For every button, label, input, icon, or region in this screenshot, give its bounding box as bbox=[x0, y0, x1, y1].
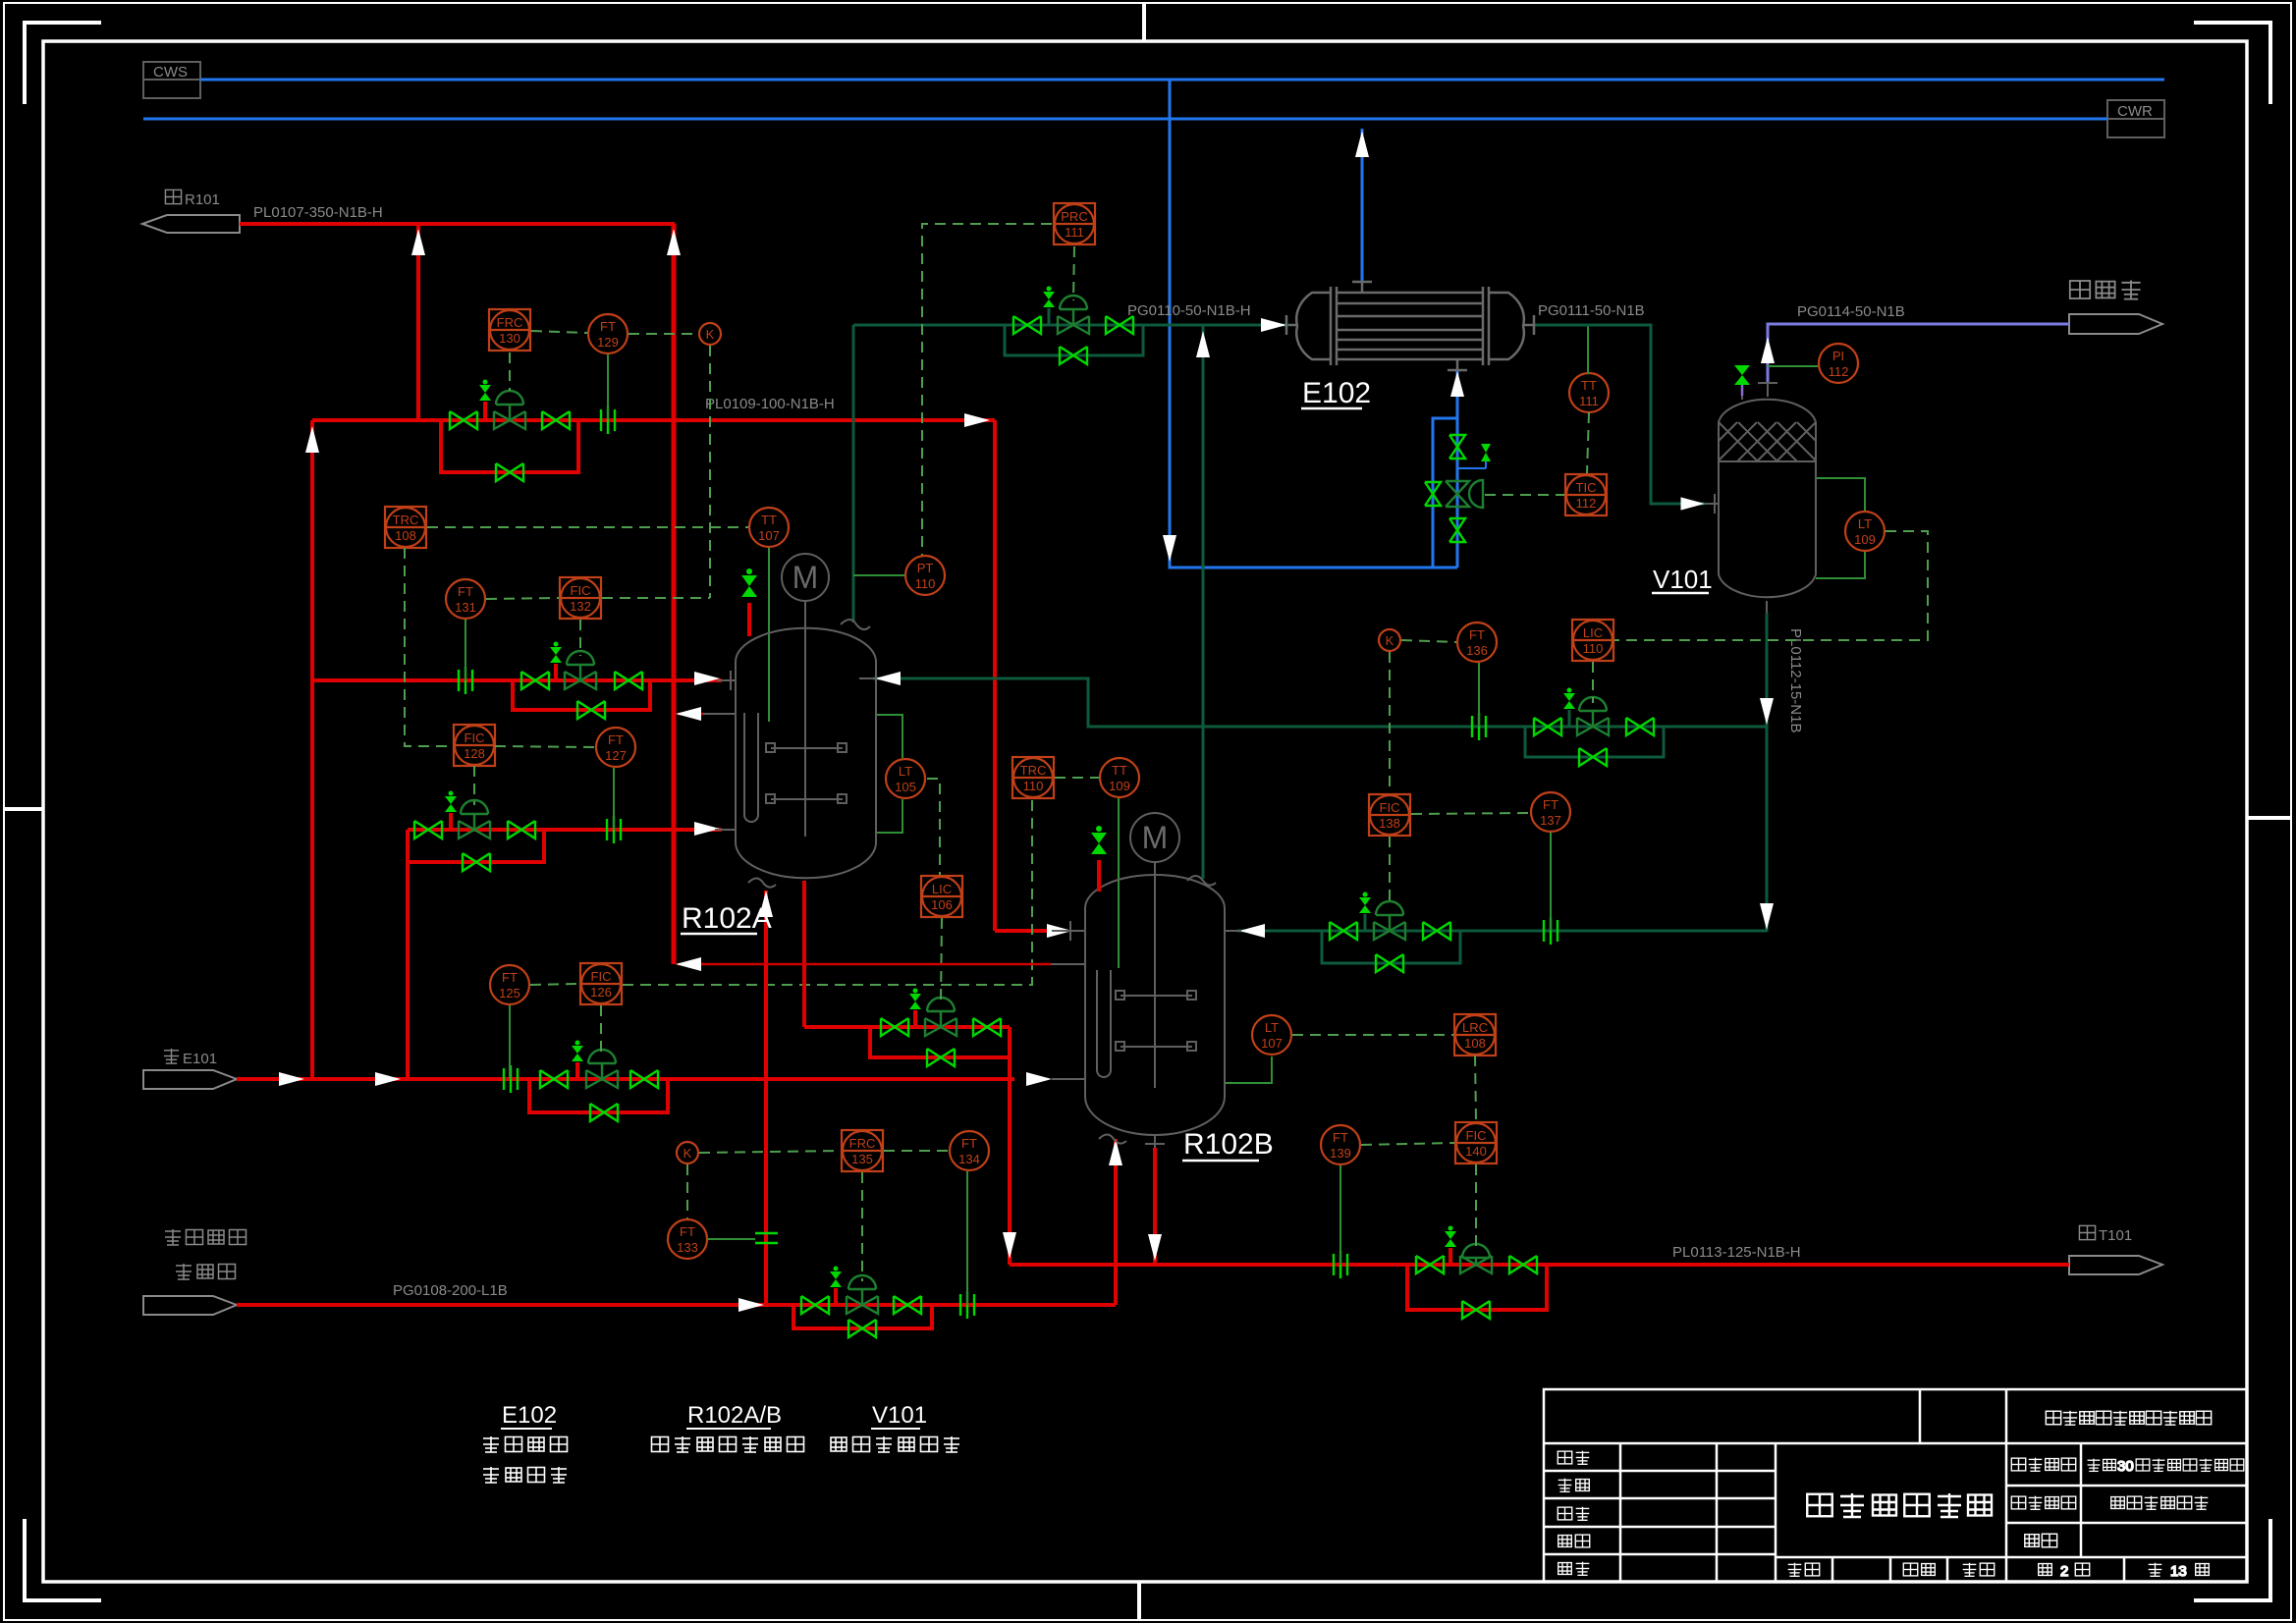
arrow into V101 inlet bbox=[1681, 498, 1703, 510]
svg-text:109: 109 bbox=[1854, 532, 1876, 547]
gray stub into R102B lower nozzle bbox=[1052, 1078, 1085, 1080]
bottom squiggle bbox=[1099, 1135, 1126, 1144]
gate valve left FIC126 bbox=[540, 1070, 568, 1088]
arrow left on vent line bbox=[676, 707, 701, 721]
PT110 tap to gas riser bbox=[853, 574, 904, 576]
FIC132 bypass bbox=[513, 680, 650, 710]
arrow right into R102A lower nozzle bbox=[694, 822, 720, 836]
centre tick right border bbox=[2247, 816, 2291, 820]
orifice on FIC128 line bbox=[607, 816, 621, 843]
LT 107 bbox=[1252, 1015, 1291, 1055]
svg-text:107: 107 bbox=[758, 528, 780, 543]
PI 112 bbox=[1819, 344, 1858, 383]
centre tick top border bbox=[1142, 3, 1146, 41]
svg-text:LT: LT bbox=[1858, 516, 1872, 531]
control valve LIC106 line bbox=[925, 998, 957, 1036]
svg-text:FIC: FIC bbox=[1466, 1128, 1487, 1143]
dash LT107-LRC108 bbox=[1292, 1034, 1453, 1036]
FT 137 bbox=[1531, 792, 1570, 832]
PT 110 bbox=[905, 556, 945, 595]
dash FIC140 to valve bbox=[1475, 1164, 1477, 1250]
FT 139 bbox=[1321, 1125, 1360, 1164]
svg-text:112: 112 bbox=[1576, 496, 1597, 511]
dash FT129-K bbox=[629, 333, 698, 335]
cell text 羰基合成第一反应工序 bbox=[2046, 1411, 2211, 1425]
FRC130 station: bypass bbox=[441, 420, 578, 472]
R102A/B descr 羰基合成反应器 bbox=[652, 1436, 804, 1452]
centre tick bottom border bbox=[1137, 1582, 1141, 1620]
value 年产30万吨丁辛醇项目 bbox=[2088, 1458, 2244, 1475]
arrow right on feed bbox=[279, 1072, 304, 1086]
svg-text:E102: E102 bbox=[1302, 377, 1371, 409]
svg-text:K: K bbox=[683, 1146, 692, 1161]
CWS header line bbox=[200, 79, 2164, 81]
V101 descr 气液相分离器 bbox=[831, 1436, 959, 1452]
motor M of R102B bbox=[1130, 813, 1179, 862]
impeller bar upper bbox=[771, 747, 843, 749]
drain stub + cap FIC140 bbox=[1449, 1248, 1452, 1265]
gate valve left FIC140 bbox=[1416, 1256, 1444, 1273]
K relay right bbox=[1379, 629, 1400, 651]
svg-text:R102B: R102B bbox=[1183, 1128, 1274, 1161]
TIC 112 controller bbox=[1565, 474, 1607, 515]
FIC140 station bypass bbox=[1407, 1265, 1547, 1310]
PL0109 downcomer x1013 bbox=[993, 420, 997, 931]
bottom row 工艺 bbox=[1963, 1563, 1995, 1577]
dash FRC130 to valve bbox=[509, 352, 511, 391]
svg-text:140: 140 bbox=[1465, 1144, 1487, 1159]
FT133 tap bbox=[708, 1238, 755, 1240]
FT127 tap bbox=[613, 768, 615, 830]
svg-text:125: 125 bbox=[499, 986, 520, 1001]
svg-text:FIC: FIC bbox=[591, 969, 612, 984]
dash FIC126 from TRC110 cascade bbox=[623, 799, 1032, 985]
svg-text:110: 110 bbox=[1583, 641, 1604, 656]
gate valve left FIC128 bbox=[414, 821, 442, 839]
V101 demister mesh bbox=[1719, 422, 1816, 461]
svg-text:K: K bbox=[1386, 633, 1394, 648]
downcomer x1028 to product header bbox=[1008, 1027, 1011, 1265]
CW riser to E102 bottom nozzle bbox=[1456, 369, 1459, 568]
orifice on PG0108 bbox=[960, 1291, 974, 1319]
title block row label 设计 bbox=[1558, 1451, 1589, 1465]
gray stub R102B upper nozzle bbox=[1052, 930, 1085, 932]
PRC 111 bbox=[1054, 203, 1095, 244]
svg-text:CWR: CWR bbox=[2117, 103, 2153, 120]
dash LIC106 to valve bbox=[941, 918, 942, 1003]
FT131 tap bbox=[465, 620, 466, 680]
svg-text:E102: E102 bbox=[502, 1402, 557, 1429]
arrow left into R102A side nozzle bbox=[875, 672, 901, 685]
FIC128 bypass bbox=[408, 830, 544, 862]
svg-text:K: K bbox=[706, 327, 715, 342]
bypass valve FIC140 bbox=[1462, 1301, 1490, 1319]
LT105 standpipe bbox=[877, 715, 902, 758]
impeller bar lower bbox=[771, 798, 843, 800]
gray stub vent nozzle bbox=[703, 713, 736, 715]
inline valve above TIC112 valve bbox=[1449, 435, 1465, 459]
R102A syngas riser x780 bbox=[764, 891, 768, 1305]
去T101 connector bbox=[2069, 1256, 2162, 1274]
svg-text:FT: FT bbox=[961, 1136, 977, 1151]
internal coil U-tube bbox=[1097, 970, 1111, 1077]
corner trim mark bottom-left bbox=[25, 1519, 101, 1600]
dash TRC108 down and to FIC128 bbox=[405, 548, 453, 746]
orifice on feed line bbox=[504, 1065, 518, 1093]
dash FIC138 to valve bbox=[1389, 837, 1391, 907]
LIC110 return line y740 to R102A bbox=[873, 678, 1767, 727]
drain stub + cap PRC111 bbox=[1048, 308, 1051, 325]
gray stub R102A right nozzle bbox=[859, 677, 876, 679]
svg-text:R102A/B: R102A/B bbox=[687, 1402, 782, 1429]
R102A relief stub + valve bbox=[747, 603, 751, 636]
svg-text:FRC: FRC bbox=[849, 1136, 876, 1151]
LT109 standpipe bbox=[1816, 478, 1865, 511]
FT 127 bbox=[596, 728, 635, 767]
solenoid on CW riser bbox=[1481, 444, 1491, 461]
svg-text:FIC: FIC bbox=[571, 583, 591, 598]
R102B upper feed spur bbox=[995, 929, 1052, 933]
svg-text:137: 137 bbox=[1540, 813, 1561, 828]
cell label 图号 bbox=[2025, 1534, 2057, 1547]
value 初步设计阶段 bbox=[2111, 1496, 2209, 1510]
bypass valve LIC110 bbox=[1579, 748, 1607, 766]
gate valve left FRC130 bbox=[450, 411, 477, 429]
arrow down on downcomer bbox=[1003, 1232, 1016, 1259]
PG0114 offgas to boiler bbox=[1768, 324, 2069, 382]
control valve LIC110 bbox=[1577, 697, 1609, 735]
arrow right into R102B lower nozzle bbox=[1026, 1072, 1052, 1086]
corner trim mark top-right bbox=[2194, 23, 2270, 104]
TRC 110 bbox=[1012, 757, 1054, 798]
svg-text:13: 13 bbox=[2170, 1563, 2187, 1580]
svg-text:128: 128 bbox=[464, 746, 485, 761]
svg-text:TIC: TIC bbox=[1576, 480, 1597, 495]
control valve FIC132 bbox=[565, 651, 596, 689]
dash TIC112 valve to controller bbox=[1485, 494, 1564, 496]
V101 return line y948 to R102B bbox=[1237, 930, 1767, 933]
svg-text:130: 130 bbox=[499, 331, 520, 346]
PG0108 syngas feed header bbox=[237, 1303, 1116, 1307]
FIC138 station bypass bbox=[1322, 931, 1460, 963]
FIC 126 bbox=[580, 963, 622, 1004]
R102B syngas riser x1136 bbox=[1114, 1139, 1118, 1305]
drain stub + cap LIC106 line bbox=[913, 1010, 917, 1027]
dash K down to FT133 bbox=[686, 1164, 688, 1218]
bottom squiggle bbox=[748, 879, 776, 888]
control valve FIC128 bbox=[459, 800, 490, 839]
svg-text:FT: FT bbox=[1333, 1130, 1348, 1145]
svg-text:108: 108 bbox=[1464, 1036, 1486, 1051]
FIC 140 bbox=[1455, 1122, 1497, 1163]
title block row label 审核 bbox=[1558, 1535, 1590, 1547]
riser x426 from PL0109 valve line bbox=[416, 224, 420, 420]
title block frame bbox=[1544, 1389, 2247, 1582]
dash K-FRC135 bbox=[699, 1151, 841, 1153]
standpipe x415 bbox=[406, 830, 410, 1079]
control valve FRC135 bbox=[847, 1275, 878, 1314]
R102B vent line y982 bbox=[678, 963, 1051, 966]
LT 105 bbox=[886, 759, 925, 798]
dash FT131-FIC132 bbox=[486, 598, 559, 599]
gate valve right LIC110 bbox=[1626, 718, 1654, 735]
svg-text:PRC: PRC bbox=[1061, 209, 1087, 224]
svg-text:FT: FT bbox=[502, 970, 518, 985]
svg-text:V101: V101 bbox=[1653, 565, 1713, 594]
arrow down on R102B bottoms bbox=[1148, 1234, 1162, 1261]
title block row label 审定 bbox=[1558, 1562, 1590, 1576]
自E101 text bbox=[164, 1049, 217, 1067]
bottom row 第 2 张 bbox=[2039, 1563, 2090, 1580]
TRC 108 bbox=[385, 507, 426, 548]
arrow up on PG0114 bbox=[1761, 337, 1775, 363]
TT111 tap from PG0111 bbox=[1587, 325, 1589, 374]
CWS label box bbox=[143, 62, 200, 98]
LIC110 station bypass bbox=[1525, 727, 1664, 757]
bypass globe valve bbox=[1425, 482, 1441, 506]
dash FT125-FIC126 bbox=[530, 984, 579, 985]
title 羰基合成工段 (big) bbox=[1807, 1493, 1992, 1517]
svg-text:LIC: LIC bbox=[1583, 625, 1603, 640]
svg-text:131: 131 bbox=[455, 600, 476, 615]
svg-text:126: 126 bbox=[590, 985, 612, 1000]
FRC 135 bbox=[842, 1130, 883, 1171]
svg-text:PT: PT bbox=[917, 561, 934, 575]
bottom row 比例 bbox=[1788, 1563, 1820, 1577]
dash FRC135 to valve bbox=[861, 1172, 863, 1281]
svg-text:133: 133 bbox=[677, 1240, 698, 1255]
control valve FIC126 bbox=[586, 1050, 618, 1088]
dash FIC128 to valve bbox=[473, 766, 475, 805]
bottom row 共 13 张 bbox=[2149, 1563, 2210, 1580]
bypass globe valve FRC130 bbox=[496, 463, 523, 481]
arrow right on PG0108 bbox=[738, 1298, 764, 1312]
gate valve left LIC110 bbox=[1534, 718, 1561, 735]
svg-text:LIC: LIC bbox=[932, 882, 952, 896]
agitator shaft bbox=[804, 601, 806, 837]
corner trim mark bottom-right bbox=[2194, 1519, 2270, 1600]
dash TT111 to TIC112 bbox=[1587, 412, 1589, 473]
drain stub + cap FIC138 bbox=[1364, 914, 1367, 931]
svg-text:2: 2 bbox=[2060, 1563, 2068, 1580]
gate valve right PRC111 bbox=[1106, 316, 1133, 334]
gas header riser x686 bbox=[672, 224, 677, 964]
dash FIC132 to valve bbox=[579, 620, 581, 656]
LIC106 letdown line y1046 bbox=[804, 1025, 1010, 1029]
gate valve right FIC140 bbox=[1509, 1256, 1537, 1273]
dash FIC126 to valve bbox=[600, 1005, 602, 1055]
arrow up into CWR bbox=[1355, 131, 1369, 157]
arrow up into R102A bottom bbox=[759, 891, 773, 917]
top gas squiggle bbox=[841, 620, 870, 629]
CWR header line bbox=[143, 118, 2107, 121]
bypass valve FIC132 bbox=[577, 701, 605, 719]
gate valve left FRC135 bbox=[801, 1296, 829, 1314]
svg-text:FRC: FRC bbox=[497, 315, 523, 330]
gate valve right FRC130 bbox=[542, 411, 570, 429]
impeller bar lower bbox=[1121, 1046, 1192, 1048]
control valve FIC140 bbox=[1460, 1244, 1492, 1273]
centre tick left border bbox=[4, 807, 43, 811]
FIC128 line y845 bbox=[408, 828, 722, 832]
R102B relief stub + valve bbox=[1097, 860, 1101, 892]
svg-text:109: 109 bbox=[1109, 779, 1130, 793]
去锅炉 connector bbox=[2069, 314, 2162, 334]
PL0107 header to R101 bbox=[240, 222, 675, 226]
TT 107 bbox=[749, 508, 789, 547]
gray stub R102B bottom nozzle bbox=[1154, 1136, 1156, 1148]
LIC106 bypass bbox=[870, 1027, 1010, 1057]
svg-text:M: M bbox=[793, 560, 819, 595]
arrow right on PL0109 bbox=[964, 413, 990, 427]
K relay bottom bbox=[677, 1142, 698, 1163]
svg-text:R102A: R102A bbox=[682, 902, 772, 935]
bypass valve PRC111 bbox=[1060, 347, 1087, 364]
FIC 128 bbox=[454, 725, 495, 766]
V101 bottoms line x1799 bbox=[1766, 613, 1769, 932]
title block row label 制图 bbox=[1558, 1479, 1590, 1492]
自合成气 原料罐 text bbox=[165, 1229, 246, 1279]
orifice on FIC132 line bbox=[459, 667, 472, 694]
reactor R102A bbox=[736, 601, 876, 888]
FIC126 bypass bbox=[529, 1079, 668, 1112]
E102 descr 反应器气 相冷凝器 bbox=[483, 1436, 568, 1483]
PG0111 from E102 to V101 bbox=[1534, 325, 1705, 504]
arrow up on R102B gas riser bbox=[1196, 331, 1210, 357]
dash PRC111 sensing from PT110 bbox=[922, 224, 1052, 556]
dash TRC108 to TT107 bbox=[427, 526, 748, 528]
arrow down on V101 bottoms lower bbox=[1760, 903, 1774, 930]
gate valve left FIC132 bbox=[521, 672, 549, 689]
gate valve left FIC138 bbox=[1330, 922, 1357, 940]
svg-text:139: 139 bbox=[1330, 1146, 1351, 1161]
dash LT109 to LIC110 bbox=[1614, 531, 1928, 640]
arrow right into R102B upper nozzle bbox=[1047, 924, 1072, 938]
svg-text:PL0112-15-N1B: PL0112-15-N1B bbox=[1787, 628, 1804, 732]
arrow up on riser x686 bbox=[667, 229, 681, 255]
drain stub + cap FRC135 bbox=[834, 1288, 838, 1305]
svg-text:PI: PI bbox=[1832, 349, 1844, 363]
R102A bottoms outlet bbox=[802, 881, 806, 1027]
去T101 text bbox=[2079, 1225, 2132, 1244]
svg-text:T101: T101 bbox=[2099, 1227, 2132, 1244]
arrow right on feed 2 bbox=[375, 1072, 401, 1086]
cell label 设计阶段 bbox=[2011, 1496, 2075, 1510]
arrow right into R102A mid nozzle bbox=[694, 672, 720, 685]
drain stub + cap LIC110 bbox=[1568, 710, 1571, 727]
svg-text:111: 111 bbox=[1065, 225, 1084, 240]
V101 vent valve bbox=[1741, 385, 1744, 396]
FT 129 transmitter bbox=[588, 314, 628, 353]
drain stub + cap FIC126 bbox=[575, 1062, 579, 1079]
heat exchanger E102 bbox=[1286, 281, 1534, 371]
svg-text:135: 135 bbox=[851, 1152, 873, 1166]
svg-text:107: 107 bbox=[1261, 1036, 1283, 1051]
FT137 tap bbox=[1550, 833, 1552, 931]
internal coil U-tube bbox=[744, 713, 758, 822]
dash LRC108 down to FIC140 bbox=[1475, 1055, 1476, 1121]
gray stub V101 inlet bbox=[1705, 503, 1719, 505]
FT 136 bbox=[1457, 622, 1497, 662]
gate valve right LIC106 line bbox=[973, 1018, 1001, 1036]
TT109 thermowell into R102B bbox=[1118, 798, 1120, 968]
svg-text:LT: LT bbox=[1265, 1020, 1279, 1035]
svg-text:138: 138 bbox=[1379, 816, 1400, 831]
svg-text:TT: TT bbox=[1581, 378, 1597, 393]
gate valve right FIC126 bbox=[630, 1070, 658, 1088]
FRC135 station bypass bbox=[793, 1305, 932, 1328]
svg-text:134: 134 bbox=[958, 1152, 980, 1166]
control valve FIC138 bbox=[1374, 901, 1405, 940]
svg-text:PG0114-50-N1B: PG0114-50-N1B bbox=[1797, 303, 1905, 320]
arrow left into R102B right nozzle bbox=[1239, 924, 1265, 938]
svg-text:PL0107-350-N1B-H: PL0107-350-N1B-H bbox=[253, 204, 383, 221]
自E101 feed pipe bbox=[237, 1077, 1014, 1081]
cell label 设计项目 bbox=[2011, 1458, 2075, 1472]
svg-text:30: 30 bbox=[2117, 1458, 2134, 1475]
arrow up into E102 bottom bbox=[1450, 371, 1464, 397]
PI112 tap bbox=[1768, 365, 1818, 367]
svg-text:111: 111 bbox=[1579, 394, 1599, 408]
control valve FRC130 bbox=[494, 391, 525, 429]
LRC 108 bbox=[1454, 1014, 1496, 1055]
svg-text:FIC: FIC bbox=[1380, 800, 1400, 815]
FT 134 bbox=[950, 1131, 989, 1170]
PG0110 gas header y331 bbox=[853, 324, 1288, 327]
CWS drop to E102 circuit bbox=[1170, 80, 1457, 568]
TT107 thermowell bbox=[768, 548, 770, 722]
arrow down on CWS drop bbox=[1163, 535, 1176, 562]
R102B bottoms outlet x1176 bbox=[1153, 1148, 1157, 1265]
dash FIC128-FT127 bbox=[495, 746, 595, 747]
bypass valve FRC135 bbox=[848, 1320, 876, 1337]
FT129 tap bbox=[607, 354, 609, 419]
FT136 tap bbox=[1478, 663, 1480, 727]
svg-text:PL0109-100-N1B-H: PL0109-100-N1B-H bbox=[705, 396, 835, 412]
drain stub + cap FIC132 bbox=[554, 664, 558, 680]
dash FIC132 right to K drop bbox=[602, 597, 710, 599]
arrow up on x318 below corner bbox=[305, 426, 319, 453]
dash K-FT136 bbox=[1401, 640, 1456, 642]
svg-text:136: 136 bbox=[1466, 643, 1488, 658]
LT 109 bbox=[1845, 512, 1885, 551]
motor M of R102A bbox=[782, 554, 829, 601]
svg-text:132: 132 bbox=[570, 599, 591, 614]
dash TRC110-TT109 bbox=[1055, 777, 1099, 779]
svg-text:FT: FT bbox=[600, 319, 616, 334]
PL0113 product header bbox=[1010, 1263, 2069, 1267]
agitator shaft bbox=[1154, 862, 1156, 1088]
bypass valve LIC106 line bbox=[927, 1049, 955, 1066]
bypass valve FIC138 bbox=[1376, 954, 1403, 972]
dash K down to FIC138 bbox=[1389, 652, 1391, 793]
CW bypass around TIC112 valve bbox=[1433, 418, 1457, 568]
gray stub R102B right nozzle bbox=[1225, 930, 1241, 932]
svg-text:V101: V101 bbox=[872, 1402, 927, 1429]
去R101 text bbox=[165, 189, 219, 208]
orifice flanges on PL0109 bbox=[601, 406, 615, 434]
TT 111 transmitter bbox=[1569, 373, 1609, 412]
dash PRC111 to valve bbox=[1073, 246, 1074, 300]
gate valve right FIC132 bbox=[615, 672, 642, 689]
FIC132 line y693 bbox=[312, 678, 722, 682]
svg-text:PG0110-50-N1B-H: PG0110-50-N1B-H bbox=[1127, 302, 1251, 319]
去R101 connector bbox=[142, 215, 240, 233]
svg-text:E101: E101 bbox=[183, 1051, 217, 1067]
自E101 connector bbox=[143, 1070, 237, 1089]
svg-text:M: M bbox=[1142, 820, 1169, 855]
svg-text:PG0108-200-L1B: PG0108-200-L1B bbox=[393, 1282, 508, 1299]
